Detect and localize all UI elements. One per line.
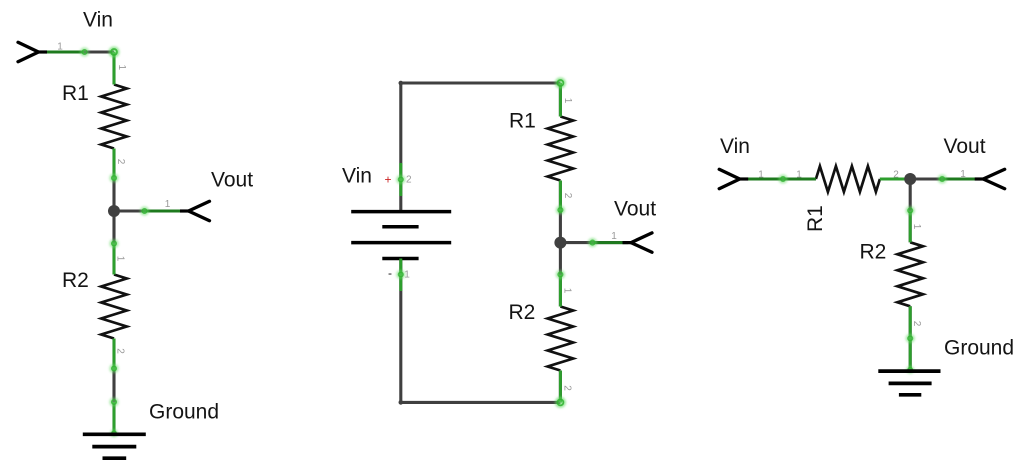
svg-text:1: 1 bbox=[611, 231, 617, 242]
svg-text:Ground: Ground bbox=[944, 337, 1014, 360]
svg-text:2: 2 bbox=[911, 321, 922, 327]
svg-text:1: 1 bbox=[796, 169, 802, 180]
svg-text:1: 1 bbox=[562, 98, 573, 104]
svg-text:Vout: Vout bbox=[614, 198, 656, 221]
svg-text:1: 1 bbox=[57, 41, 63, 52]
svg-text:R1: R1 bbox=[804, 205, 827, 232]
svg-text:1: 1 bbox=[114, 256, 125, 262]
svg-text:2: 2 bbox=[562, 385, 573, 391]
svg-text:+: + bbox=[384, 173, 391, 187]
svg-text:2: 2 bbox=[406, 174, 412, 185]
svg-text:Vout: Vout bbox=[211, 169, 253, 192]
svg-text:Vin: Vin bbox=[83, 9, 113, 32]
svg-text:1: 1 bbox=[562, 288, 573, 294]
svg-text:1: 1 bbox=[960, 169, 966, 180]
svg-text:1: 1 bbox=[404, 269, 410, 280]
svg-text:1: 1 bbox=[116, 65, 127, 71]
svg-text:R1: R1 bbox=[62, 82, 89, 105]
svg-text:1: 1 bbox=[165, 199, 171, 210]
svg-text:R2: R2 bbox=[62, 269, 89, 292]
svg-text:2: 2 bbox=[562, 193, 573, 199]
svg-text:1: 1 bbox=[758, 169, 764, 180]
svg-text:R2: R2 bbox=[860, 241, 887, 264]
svg-text:Vin: Vin bbox=[720, 135, 750, 158]
svg-text:-: - bbox=[388, 266, 392, 280]
svg-text:R2: R2 bbox=[509, 301, 536, 324]
svg-text:1: 1 bbox=[911, 224, 922, 230]
svg-text:2: 2 bbox=[115, 348, 126, 354]
svg-text:R1: R1 bbox=[509, 110, 536, 133]
svg-text:2: 2 bbox=[115, 159, 126, 165]
svg-text:Vout: Vout bbox=[944, 135, 986, 158]
svg-text:Ground: Ground bbox=[149, 401, 219, 424]
svg-text:2: 2 bbox=[893, 169, 899, 180]
svg-text:Vin: Vin bbox=[342, 165, 372, 188]
